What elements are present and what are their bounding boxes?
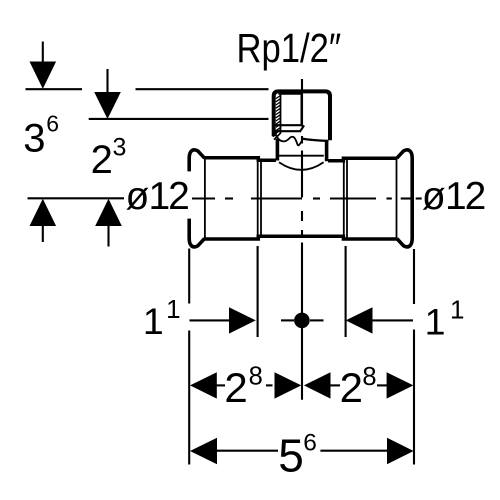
svg-text:8: 8 (249, 362, 263, 390)
svg-text:2: 2 (224, 364, 247, 411)
thread crest line (280, 94, 282, 133)
right tube stop seam lines (343, 159, 345, 238)
svg-text:6: 6 (46, 111, 59, 137)
svg-text:ø: ø (126, 175, 150, 218)
dimension 2-8 left arrowhead left (190, 372, 217, 398)
left press bead (189, 150, 204, 172)
svg-text:3: 3 (23, 117, 45, 161)
dimension 1-1 left line (190, 319, 231, 321)
svg-text:2: 2 (340, 364, 363, 411)
branch neck right wall (325, 141, 329, 161)
center reference dot (294, 313, 310, 329)
svg-text:1: 1 (445, 175, 467, 218)
dimension 3-6 down arrow tail (42, 42, 44, 63)
up arrow tail right (107, 226, 109, 247)
dimension 2-8 right line right (377, 384, 388, 386)
svg-text:1: 1 (450, 295, 464, 325)
dimension 3-6 reference line at branch top level (26, 88, 83, 90)
dimension 3-6 down arrowhead (30, 62, 57, 89)
thread bore top inner line (278, 93, 301, 95)
saddle intersection arc (279, 162, 324, 170)
svg-text:3: 3 (113, 133, 127, 161)
svg-text:5: 5 (278, 429, 304, 481)
break-out wavy line (276, 135, 302, 146)
center reference line right stub (310, 319, 324, 321)
thread bore bottom line (274, 124, 302, 126)
dimension 5-6 right arrowhead (387, 438, 414, 464)
branch centerline vertical (301, 79, 303, 400)
thread hatch ticks (276, 96, 280, 131)
dimension 2-8 right arrowhead left (304, 372, 331, 398)
body top left outer segment (205, 158, 276, 160)
bore right edge on centerline (301, 94, 303, 125)
center reference line left stub (281, 319, 294, 321)
svg-text:2: 2 (168, 175, 190, 218)
dimension 2-8 right arrowhead right (387, 372, 414, 398)
seat hatch strokes (273, 130, 281, 140)
svg-text:1: 1 (149, 175, 171, 218)
branch socket outline (274, 91, 330, 140)
extension line left tube stop (257, 246, 259, 337)
right press bead (397, 150, 412, 247)
dimension 2-3 reference line at thread depth level (89, 118, 269, 120)
dimension 2-8 right line left (329, 384, 340, 386)
seat second line (274, 130, 300, 132)
body top right segment (328, 158, 397, 161)
up arrowhead right (95, 199, 122, 226)
pipe centerline horizontal (192, 197, 422, 199)
branch neck left wall (276, 139, 280, 161)
svg-text:2: 2 (91, 138, 113, 182)
dimension 5-6 right line (320, 450, 388, 452)
svg-text:1: 1 (166, 294, 180, 324)
branch shoulder edge right (302, 139, 329, 141)
dimension line pipe axis left (28, 197, 125, 199)
svg-text:2: 2 (465, 175, 487, 218)
label Rp1/2" (237, 26, 342, 71)
right bead junction line (396, 159, 398, 239)
svg-text:ø: ø (422, 175, 446, 218)
svg-text:Rp1/2″: Rp1/2″ (237, 26, 342, 71)
seat diagonal (300, 125, 305, 132)
dimension 2-8 left arrowhead right (275, 372, 302, 398)
dimension 2-8 left line right (266, 384, 273, 386)
svg-text:1: 1 (425, 301, 446, 343)
svg-text:8: 8 (362, 363, 376, 391)
dimension 5-6 left line (216, 450, 278, 452)
svg-text:1: 1 (143, 300, 164, 342)
dimension 5-6 left arrowhead (190, 438, 217, 464)
left bead junction line (204, 159, 206, 239)
left tube stop seam lines (257, 159, 259, 238)
dimension 2-3 down arrowhead (94, 92, 121, 119)
body bottom line (205, 236, 397, 239)
dimension 1-1 right line (372, 319, 413, 321)
body top silhouette through branch (279, 155, 324, 157)
extension line left outer (188, 249, 190, 304)
dimension 2-3 down arrow tail (106, 69, 108, 93)
svg-text:6: 6 (303, 429, 317, 456)
up arrow tail left (42, 226, 44, 242)
up arrowhead left (30, 199, 57, 226)
dimension 2-8 left line left (214, 384, 225, 386)
extension line right outer (413, 249, 415, 304)
dimension 1-1 right arrowhead (346, 307, 373, 333)
dimension 1-1 left arrowhead (229, 307, 256, 333)
extension line right tube stop (345, 246, 347, 337)
